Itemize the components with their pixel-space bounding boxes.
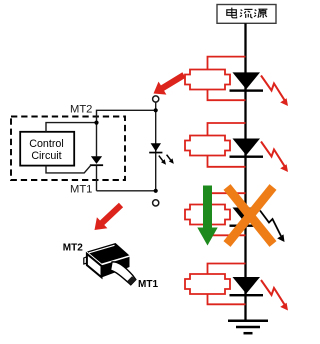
LED D3 failed open (230, 208, 264, 227)
light arrow D5 b (167, 155, 174, 164)
light arrow D1 (261, 76, 288, 107)
package bent lead MT1 (111, 262, 136, 285)
svg-text:Circuit: Circuit (31, 150, 61, 162)
package top face (87, 243, 130, 264)
terminal MT2 (153, 96, 159, 102)
arrow red thick to package (95, 203, 124, 230)
current source box (217, 5, 276, 24)
green current arrow (197, 186, 217, 246)
arrow red thick to MT2 (154, 72, 186, 94)
label 电流源 glyph 源 (254, 9, 267, 18)
LED D4 (230, 277, 264, 296)
wire main vertical (244, 23, 246, 320)
dashed enclosure box (11, 117, 125, 181)
LED D2 (230, 139, 264, 158)
package lid stripe (89, 245, 115, 253)
junction MT2 (154, 108, 158, 112)
label 电流源 glyph 流 (240, 9, 253, 18)
label 电流源 glyph 电 (227, 8, 237, 18)
protection device P1 (185, 70, 230, 90)
wire red bracket group1 (208, 57, 246, 101)
wire red bracket group4 (208, 264, 246, 305)
orange X mark (227, 187, 273, 244)
package seam (87, 252, 130, 264)
LED D1 (230, 72, 264, 91)
wire MT1 rail (97, 190, 156, 192)
svg-text:MT2: MT2 (63, 242, 83, 253)
wire gate (46, 165, 91, 173)
svg-text:MT1: MT1 (138, 279, 158, 290)
ground (228, 321, 268, 334)
wire LED branch (155, 102, 157, 191)
LED D5 internal (149, 143, 162, 153)
package right face (102, 257, 130, 278)
wire MT2 rail (97, 110, 156, 156)
svg-text:MT2: MT2 (70, 103, 92, 115)
junction control wire (94, 121, 98, 125)
protection device P3 (185, 205, 230, 225)
package front face (87, 254, 102, 277)
package left lead (84, 257, 88, 265)
protection device P2 (185, 136, 230, 156)
no-light black arrow D3 (260, 211, 285, 243)
svg-text:Control: Control (29, 138, 63, 150)
light arrow D5 a (159, 156, 166, 165)
junction MT1 (154, 189, 158, 193)
light arrow D4 (261, 280, 288, 311)
protection device P4 (185, 274, 230, 294)
wire control to thyristor anode-side (46, 123, 97, 132)
control circuit box (20, 132, 74, 166)
svg-text:MT1: MT1 (70, 184, 92, 196)
light arrow D2 (261, 142, 288, 173)
thyristor Q1 (90, 156, 103, 191)
wire red bracket group2 (208, 123, 246, 167)
wire red bracket group3 (208, 193, 246, 235)
package lead tip face (127, 276, 135, 285)
terminal MT1 (153, 200, 159, 206)
